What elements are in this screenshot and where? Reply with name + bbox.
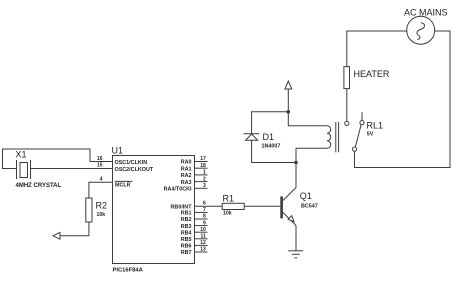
AC source AC MAINS — [404, 7, 448, 44]
svg-text:RB1: RB1 — [181, 211, 192, 217]
svg-text:MCLR: MCLR — [115, 182, 131, 188]
pin RA0 stub 17 — [195, 156, 208, 162]
svg-text:RB3: RB3 — [181, 224, 192, 230]
svg-text:RB4: RB4 — [181, 230, 192, 236]
transistor Q1 BC547 — [280, 188, 317, 226]
wire heater to AC left — [347, 31, 407, 67]
svg-text:PIC16F84A: PIC16F84A — [113, 268, 144, 274]
wire R1 to Q1 base — [244, 205, 280, 207]
pin RB7 stub 13 — [195, 247, 208, 253]
svg-text:10k: 10k — [223, 211, 232, 217]
svg-text:R2: R2 — [96, 201, 108, 211]
svg-text:AC MAINS: AC MAINS — [404, 7, 448, 17]
pin RB4 stub 10 — [195, 227, 208, 233]
input arrow — [53, 232, 60, 239]
svg-text:15: 15 — [97, 163, 103, 169]
pin RB1 stub 7 — [195, 207, 208, 213]
wire D1 anode to collector node — [252, 140, 296, 162]
crystal X1 — [16, 150, 62, 190]
wire coil bottom to collector node — [296, 148, 327, 162]
svg-text:6: 6 — [203, 201, 206, 207]
svg-text:1N4007: 1N4007 — [262, 144, 281, 150]
svg-text:5V: 5V — [367, 132, 374, 138]
pin RA1 stub 18 — [195, 163, 208, 169]
pin RA3 stub 2 — [195, 176, 208, 182]
svg-text:RB0/INT: RB0/INT — [171, 205, 193, 211]
VCC arrow — [285, 81, 292, 112]
wire contact to heater — [346, 89, 348, 122]
pin RA2 stub 1 — [195, 170, 208, 176]
wire contact to AC right — [355, 31, 451, 168]
svg-text:10: 10 — [200, 227, 206, 233]
pin number 4 — [100, 177, 103, 183]
wire R2 to arrow — [60, 222, 89, 236]
svg-text:RB6: RB6 — [181, 244, 192, 250]
svg-text:12: 12 — [200, 240, 206, 246]
svg-text:4MHZ CRYSTAL: 4MHZ CRYSTAL — [16, 183, 62, 189]
wire emitter down — [295, 226, 297, 251]
ground — [288, 251, 303, 258]
wire node to relay coil top — [288, 112, 327, 126]
svg-text:9: 9 — [203, 220, 206, 226]
svg-text:RA4/T0CKI: RA4/T0CKI — [164, 187, 192, 193]
svg-text:18: 18 — [200, 163, 206, 169]
svg-text:D1: D1 — [263, 132, 275, 142]
svg-text:RA0: RA0 — [181, 160, 192, 166]
pin RA4 stub 3 — [195, 183, 208, 189]
svg-text:RB7: RB7 — [181, 250, 192, 256]
relay coil RL1 — [327, 122, 339, 152]
wire node to D1 — [252, 112, 289, 134]
svg-text:11: 11 — [201, 234, 207, 240]
svg-text:16: 16 — [97, 156, 103, 162]
heater element — [344, 67, 390, 89]
svg-text:RL1: RL1 — [367, 121, 384, 131]
pin RB2 stub 8 — [195, 214, 208, 220]
svg-text:RA3: RA3 — [181, 180, 192, 186]
svg-text:4: 4 — [100, 177, 103, 183]
svg-text:1: 1 — [203, 170, 206, 176]
relay contact RL1 — [345, 112, 383, 151]
svg-text:R1: R1 — [223, 194, 235, 204]
wire RB0 to R1 — [195, 205, 223, 207]
microcontroller U1 PIC16F84A — [112, 146, 195, 274]
pin RB5 stub 11 — [195, 234, 208, 240]
svg-text:U1: U1 — [112, 146, 124, 156]
node VCC junction — [287, 110, 291, 114]
wire OSC1 pin16 loop — [3, 149, 114, 169]
svg-text:OSC2/CLKOUT: OSC2/CLKOUT — [115, 167, 154, 173]
diode D1 1N4007 — [243, 132, 280, 150]
svg-text:BC547: BC547 — [301, 204, 318, 210]
svg-text:RA1: RA1 — [181, 166, 192, 172]
svg-text:HEATER: HEATER — [354, 69, 390, 79]
svg-text:RB5: RB5 — [181, 237, 192, 243]
pin RB3 stub 9 — [195, 220, 208, 226]
svg-text:13: 13 — [200, 247, 206, 253]
pin number 16 — [97, 156, 103, 162]
wire MCLR to R2 — [89, 182, 113, 198]
svg-text:RA2: RA2 — [181, 173, 192, 179]
pin RB6 stub 12 — [195, 240, 208, 246]
svg-text:7: 7 — [203, 207, 206, 213]
svg-text:2: 2 — [203, 176, 206, 182]
wire collector up — [295, 163, 297, 188]
svg-text:8: 8 — [203, 214, 206, 220]
svg-text:17: 17 — [200, 156, 206, 162]
svg-text:OSC1/CLKIN: OSC1/CLKIN — [115, 160, 148, 166]
svg-text:RB2: RB2 — [181, 217, 192, 223]
pin RB0 number 6 — [203, 201, 206, 207]
svg-text:10k: 10k — [97, 212, 106, 218]
node collector junction — [294, 161, 298, 165]
pin number 15 — [97, 163, 103, 169]
resistor R1 — [222, 194, 244, 217]
resistor R2 — [86, 198, 107, 222]
wire OSC2 pin15 — [31, 168, 114, 170]
svg-text:X1: X1 — [16, 150, 27, 160]
svg-text:3: 3 — [203, 183, 206, 189]
svg-text:Q1: Q1 — [300, 191, 312, 201]
